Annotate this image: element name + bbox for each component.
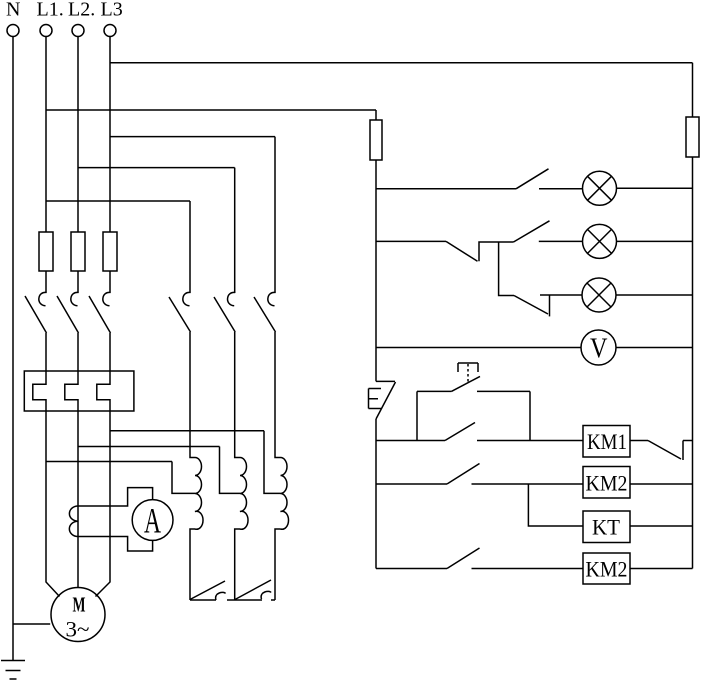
svg-text:N: N (6, 0, 20, 21)
svg-text:KT: KT (592, 515, 621, 540)
svg-text:V: V (590, 334, 608, 365)
svg-text:L2.: L2. (68, 0, 95, 21)
svg-text:KM2: KM2 (586, 471, 628, 496)
svg-text:L1.: L1. (37, 0, 64, 21)
svg-text:A: A (144, 501, 161, 541)
svg-text:KM1: KM1 (587, 429, 627, 454)
svg-text:L3: L3 (101, 0, 123, 21)
svg-text:KM2: KM2 (586, 557, 628, 582)
svg-text:M: M (73, 593, 86, 617)
svg-text:3~: 3~ (66, 617, 90, 642)
